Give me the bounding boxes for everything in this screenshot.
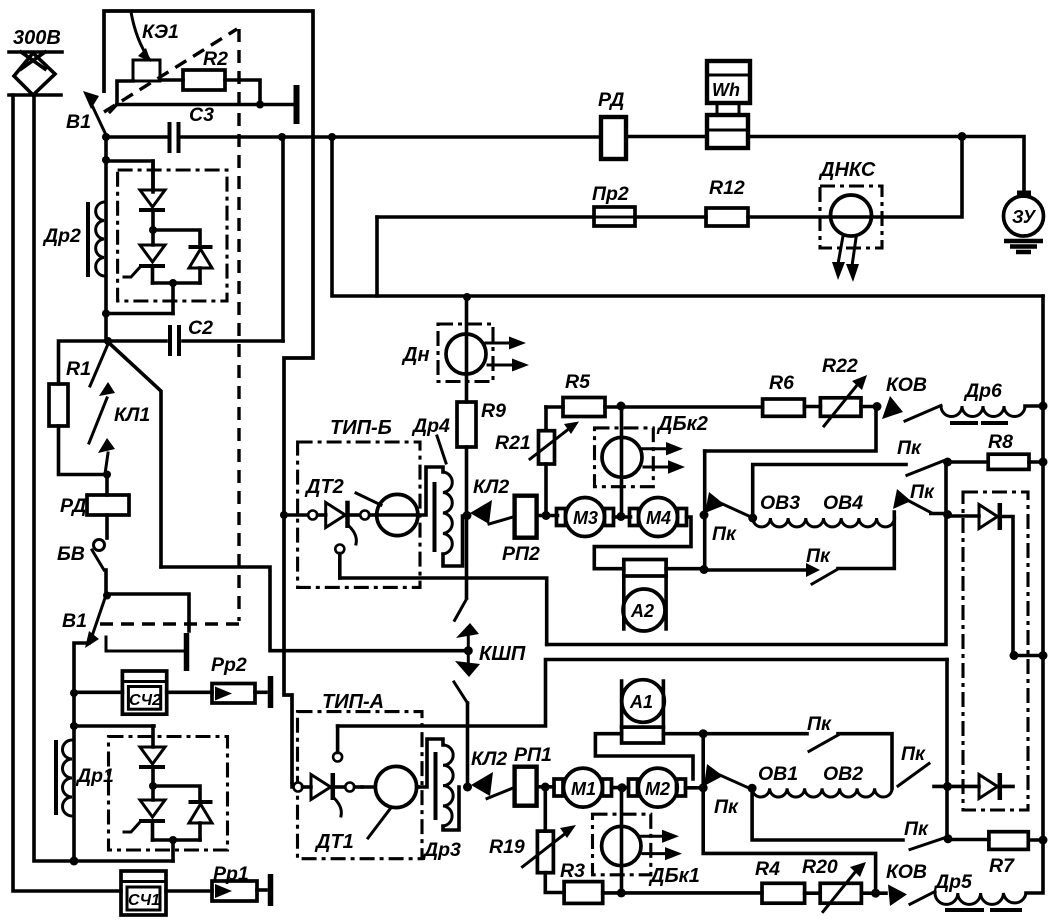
thyristor DT1 input	[292, 773, 362, 816]
switch Pk lower-left	[704, 764, 757, 818]
wire KShP common from left	[161, 567, 468, 651]
svg-text:ОВ4: ОВ4	[823, 492, 863, 514]
node 300V pantograph	[9, 27, 62, 95]
wire left rail inner	[34, 95, 72, 861]
svg-text:R22: R22	[822, 355, 858, 377]
svg-text:КЭ1: КЭ1	[142, 21, 179, 43]
motor sensor DBk1	[593, 788, 700, 893]
motor M4	[630, 498, 687, 537]
resistor R22	[820, 355, 881, 426]
field winding OV3 OV4	[748, 492, 894, 527]
inductor Dr1 group	[56, 726, 173, 861]
svg-text:R12: R12	[709, 177, 745, 199]
svg-text:В1: В1	[62, 610, 87, 632]
svg-text:R4: R4	[755, 858, 780, 880]
svg-text:Пк: Пк	[714, 796, 739, 818]
svg-text:М4: М4	[646, 508, 671, 528]
svg-text:ДТ2: ДТ2	[304, 476, 344, 498]
wire M4 to A2 loop	[594, 517, 691, 569]
svg-text:ОВ2: ОВ2	[823, 763, 863, 785]
svg-text:ОВ3: ОВ3	[760, 492, 800, 514]
wire to main bus vertical x332	[332, 137, 1043, 296]
svg-text:РП1: РП1	[514, 744, 552, 766]
svg-text:Др6: Др6	[963, 380, 1002, 402]
switch KOV lower	[886, 861, 935, 906]
wire top box outline	[104, 11, 313, 784]
svg-text:КОВ: КОВ	[886, 374, 927, 396]
switch Pk upper-left	[705, 492, 753, 545]
wire riser x705	[703, 451, 707, 570]
wire A2 to right	[666, 567, 704, 571]
motor sensor Dn	[401, 297, 529, 402]
lamp ZU	[1004, 193, 1044, 252]
wire left rail outer	[13, 95, 121, 891]
svg-text:ОВ1: ОВ1	[758, 763, 798, 785]
switch Pk A1 bypass	[807, 713, 892, 788]
inductor Dr3	[418, 739, 461, 861]
svg-text:ТИП-Б: ТИП-Б	[330, 417, 392, 439]
svg-text:КОВ: КОВ	[886, 861, 927, 883]
svg-text:М3: М3	[573, 508, 598, 528]
svg-text:300В: 300В	[13, 27, 61, 49]
box TIP-A	[298, 691, 423, 859]
svg-text:А2: А2	[630, 601, 654, 621]
svg-text:R1: R1	[66, 358, 91, 380]
wire B right leg down	[945, 660, 949, 841]
switch Pk R7 bypass	[904, 818, 953, 850]
resistor R8	[948, 431, 1048, 469]
thyristor VS2 in Dr1	[124, 800, 165, 840]
wire OV3 bypass to R8	[753, 465, 906, 519]
svg-text:ДБк1: ДБк1	[648, 865, 700, 887]
wire dash-dot box Dr1	[109, 737, 228, 851]
wire A1 loop to M2	[595, 734, 693, 779]
wire bypass OV4 lower	[838, 518, 894, 569]
switch Pk coil-right upper	[893, 481, 952, 519]
motor M2	[629, 768, 704, 807]
svg-text:КШП: КШП	[479, 643, 526, 665]
switch KL2 upper	[463, 476, 514, 524]
motor M3	[557, 498, 631, 537]
resistor R21	[495, 407, 579, 511]
node gate terminal TIP-A	[333, 726, 342, 762]
counter SCh1	[121, 871, 166, 915]
box TIP-B	[298, 417, 420, 587]
svg-text:СЧ2: СЧ2	[129, 692, 161, 709]
relay RD top	[598, 89, 706, 159]
svg-text:R19: R19	[489, 836, 525, 858]
switch KL1	[89, 344, 150, 479]
wire dashed horizontal link to V1 bottom	[97, 622, 239, 625]
wire B y660	[338, 660, 947, 727]
node input TIP-B	[280, 511, 288, 519]
wire OV1 bypass to R7	[752, 788, 903, 840]
inductor Dr6	[941, 380, 1048, 423]
inductor Dr4	[411, 415, 463, 566]
contactor KE1	[117, 12, 179, 105]
node bus junction	[463, 293, 471, 301]
svg-text:Пк: Пк	[897, 437, 922, 459]
svg-text:Пк: Пк	[712, 523, 737, 545]
wire dash-dot box diodes	[963, 492, 1028, 810]
wire diode link cross	[1013, 654, 1043, 658]
svg-text:Пк: Пк	[807, 713, 832, 735]
diode upper	[948, 503, 1014, 656]
resistor R20	[802, 856, 886, 912]
relay RP1	[514, 744, 554, 806]
wire dashed vertical link	[237, 29, 240, 621]
svg-text:Дн: Дн	[401, 344, 430, 366]
resistor R19	[489, 787, 576, 893]
svg-text:R6: R6	[769, 372, 794, 394]
transformer DT2	[304, 476, 418, 536]
transformer DT1	[314, 766, 418, 853]
fuse Pr2	[377, 183, 706, 226]
wire riser x703	[703, 734, 875, 894]
motor sensor DBk2	[595, 406, 708, 512]
resistor R12	[706, 137, 962, 227]
relay RD coil	[60, 475, 129, 539]
wire x705 top to R22 junction	[705, 406, 876, 451]
ammeter A2	[623, 560, 666, 632]
svg-text:Др5: Др5	[933, 871, 973, 893]
svg-text:КЛ1: КЛ1	[114, 404, 150, 426]
switch KOV upper	[882, 374, 941, 421]
svg-text:РД: РД	[598, 89, 624, 111]
counter SCh2	[74, 671, 167, 714]
wire dash-dot box Dr2	[118, 170, 227, 301]
switch KL2 lower	[463, 748, 513, 799]
inductor Dr5	[933, 871, 1026, 910]
svg-text:Др2: Др2	[42, 225, 81, 247]
switch V1 bottom	[62, 592, 189, 672]
svg-text:ДБк2: ДБк2	[656, 413, 708, 435]
svg-text:ЗУ: ЗУ	[1012, 207, 1037, 227]
svg-text:Пк: Пк	[806, 545, 831, 567]
relay RP2	[502, 496, 558, 565]
svg-text:R9: R9	[481, 400, 506, 422]
svg-text:Wh: Wh	[712, 80, 740, 100]
svg-text:Рр2: Рр2	[211, 654, 247, 676]
svg-text:СЧ1: СЧ1	[128, 892, 160, 909]
switch Pk lower bypass	[704, 545, 838, 584]
resistor R3	[560, 860, 762, 903]
capacitor C3	[102, 104, 601, 153]
resistor R9	[457, 400, 506, 598]
svg-text:БВ: БВ	[57, 543, 85, 565]
capacitor C2	[104, 317, 283, 356]
motor DNKS	[818, 159, 882, 282]
resistor R2	[160, 48, 264, 109]
diode VD4 in Dr1	[153, 786, 213, 840]
svg-text:С2: С2	[188, 317, 213, 339]
thyristor DT2 input	[284, 501, 377, 544]
diode lower	[948, 773, 1014, 800]
node terminal bar top	[117, 103, 293, 107]
svg-text:М1: М1	[571, 779, 596, 799]
wire dashed mechanical link V1-KE1	[104, 29, 237, 112]
svg-text:Пк: Пк	[904, 818, 929, 840]
wire V1 to counter column	[74, 643, 89, 861]
svg-text:R5: R5	[565, 371, 591, 393]
node gate terminal TIP-B	[335, 545, 344, 579]
svg-text:R8: R8	[988, 431, 1013, 453]
svg-text:R7: R7	[989, 855, 1015, 877]
svg-text:ДТ1: ДТ1	[314, 831, 354, 853]
svg-text:Пр2: Пр2	[592, 183, 629, 205]
svg-text:R2: R2	[203, 48, 228, 70]
wire Dr2 bottom	[153, 283, 201, 314]
arrester Rr1	[166, 863, 271, 906]
diode VD2 in Dr2	[153, 230, 213, 283]
svg-text:ТИП-А: ТИП-А	[322, 691, 384, 713]
svg-text:КЛ2: КЛ2	[473, 476, 509, 498]
svg-text:В1: В1	[66, 111, 91, 133]
switch V1 top	[66, 91, 117, 135]
wire A y645	[547, 462, 946, 645]
ammeter A1	[622, 680, 665, 743]
svg-text:Др4: Др4	[411, 415, 450, 437]
motor M1	[554, 768, 629, 807]
resistor R4	[755, 858, 820, 903]
diode VD1 in Dr2	[139, 161, 165, 245]
diode VD3 in Dr1	[139, 726, 165, 800]
wire Dr1 bottom	[153, 840, 201, 861]
svg-text:С3: С3	[189, 104, 214, 126]
svg-text:КЛ2: КЛ2	[471, 748, 507, 770]
arrester Rr2	[167, 654, 271, 708]
wire gate return y578	[340, 578, 547, 645]
svg-text:РП2: РП2	[502, 543, 540, 565]
svg-text:Др3: Др3	[422, 839, 461, 861]
switch Pk lower coil-right	[898, 743, 948, 786]
switch KShP	[454, 599, 526, 787]
svg-text:А1: А1	[629, 692, 653, 712]
resistor R6	[763, 372, 821, 416]
svg-text:М2: М2	[645, 779, 670, 799]
wire C3 to C2 vertical	[281, 137, 285, 341]
wire right edge rail	[1026, 296, 1043, 893]
switch BV	[57, 540, 106, 595]
svg-text:ДНКС: ДНКС	[818, 159, 876, 181]
svg-text:R20: R20	[802, 856, 838, 878]
field winding OV1 OV2	[752, 763, 892, 797]
inductor Dr2 group	[42, 137, 173, 341]
svg-text:РД: РД	[60, 495, 86, 517]
resistor R7	[948, 832, 1048, 877]
thyristor VS1 in Dr2	[124, 245, 165, 283]
svg-text:Пк: Пк	[901, 743, 926, 765]
resistor R5	[546, 371, 763, 417]
switch Pk upper-right	[897, 437, 952, 475]
svg-text:R3: R3	[560, 860, 585, 882]
wire top to lamp	[962, 137, 1024, 197]
wire diagonal from C2 node	[108, 342, 161, 567]
wire Pr2 riser	[375, 217, 379, 296]
meter Wh	[707, 61, 967, 148]
resistor R1	[49, 341, 108, 475]
svg-text:Пк: Пк	[910, 481, 935, 503]
svg-text:R21: R21	[495, 432, 531, 454]
wire A1 to right	[663, 732, 807, 736]
